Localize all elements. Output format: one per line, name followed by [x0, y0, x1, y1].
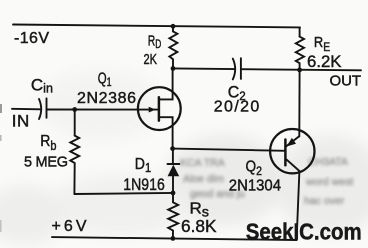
diode D1 anode lead	[172, 149, 174, 164]
node junction dot D1 / Rb / Rs	[171, 191, 176, 196]
wire RD drop from rail	[172, 26, 174, 31]
svg-text:SeekIC.com: SeekIC.com	[246, 219, 362, 245]
svg-text:IN: IN	[12, 111, 30, 130]
wire mid line right (C2 to OUT)	[241, 69, 361, 70]
node junction dot Rs bottom rail	[171, 236, 176, 241]
svg-text:5 MEG: 5 MEG	[24, 155, 68, 171]
svg-text:2K: 2K	[144, 52, 158, 68]
svg-text:OUT: OUT	[330, 73, 362, 90]
transistor Q2 emitter arrowhead	[286, 138, 296, 147]
transistor Q2 circle	[270, 129, 314, 173]
svg-text:6.2K: 6.2K	[307, 52, 342, 71]
left edge scan artifact	[0, 104, 2, 113]
svg-text:KCA TRA: KCA TRA	[180, 157, 225, 169]
resistor RD	[169, 31, 177, 68]
wire mid line left (RD junction to C2)	[173, 67, 234, 70]
ghost bleed-through text	[180, 156, 353, 207]
transistor Q2 collector diagonal (bottom)	[286, 159, 299, 171]
node junction dot RD top	[171, 24, 176, 29]
wire Q2 collector lead	[298, 70, 300, 136]
resistor Rb	[70, 136, 79, 194]
wire Rb branch vertical	[74, 110, 76, 136]
resistor RE	[296, 37, 304, 70]
capacitor C2	[233, 58, 241, 79]
node junction dot RD bottom / C2	[171, 66, 176, 71]
svg-text:hac over: hac over	[304, 195, 345, 207]
svg-text:2N1304: 2N1304	[229, 178, 281, 195]
transistor Q2 emitter diagonal (top, arrow to bar)	[287, 136, 300, 146]
wire Q2 bottom lead to rail	[297, 171, 300, 240]
svg-text:2N2386: 2N2386	[77, 90, 136, 107]
resistor Rs	[168, 193, 178, 239]
svg-text:6.8K: 6.8K	[181, 216, 217, 236]
svg-text:-16V: -16V	[14, 30, 49, 47]
svg-text:+6V: +6V	[52, 218, 87, 235]
svg-text:1N916: 1N916	[123, 175, 165, 194]
transistor Q1 drain segment	[159, 68, 173, 99]
svg-text:word west: word west	[305, 176, 353, 188]
wire IN lead	[12, 108, 40, 111]
wire bottom rail +6V	[52, 237, 297, 240]
transistor Q1 gate arrowhead	[149, 107, 156, 113]
node junction dot Cin / Rb	[72, 107, 77, 112]
node junction dot RE bottom / OUT	[297, 68, 302, 73]
diode D1 cathode bar	[168, 163, 180, 165]
diode D1 lower lead	[172, 176, 174, 193]
capacitor Cin	[39, 98, 47, 119]
wire RE branch vertical top	[299, 27, 301, 36]
wire Q1 source to Q2 base	[173, 149, 286, 151]
wire top rail -16V	[13, 25, 300, 28]
diode D1 triangle (points up)	[168, 165, 180, 177]
transistor Q1 source segment	[159, 117, 173, 148]
node junction dot Q1 source / D1	[170, 146, 175, 151]
wire Cin to gate	[47, 109, 159, 111]
svg-text:20/20: 20/20	[214, 98, 260, 115]
svg-text:Aloe dim: Aloe dim	[183, 173, 224, 185]
wire Rb to D1 node	[74, 193, 173, 194]
transistor Q1 channel bar	[158, 97, 161, 120]
transistor Q2 base bar	[284, 140, 287, 166]
transistor Q1 circle	[138, 87, 181, 130]
